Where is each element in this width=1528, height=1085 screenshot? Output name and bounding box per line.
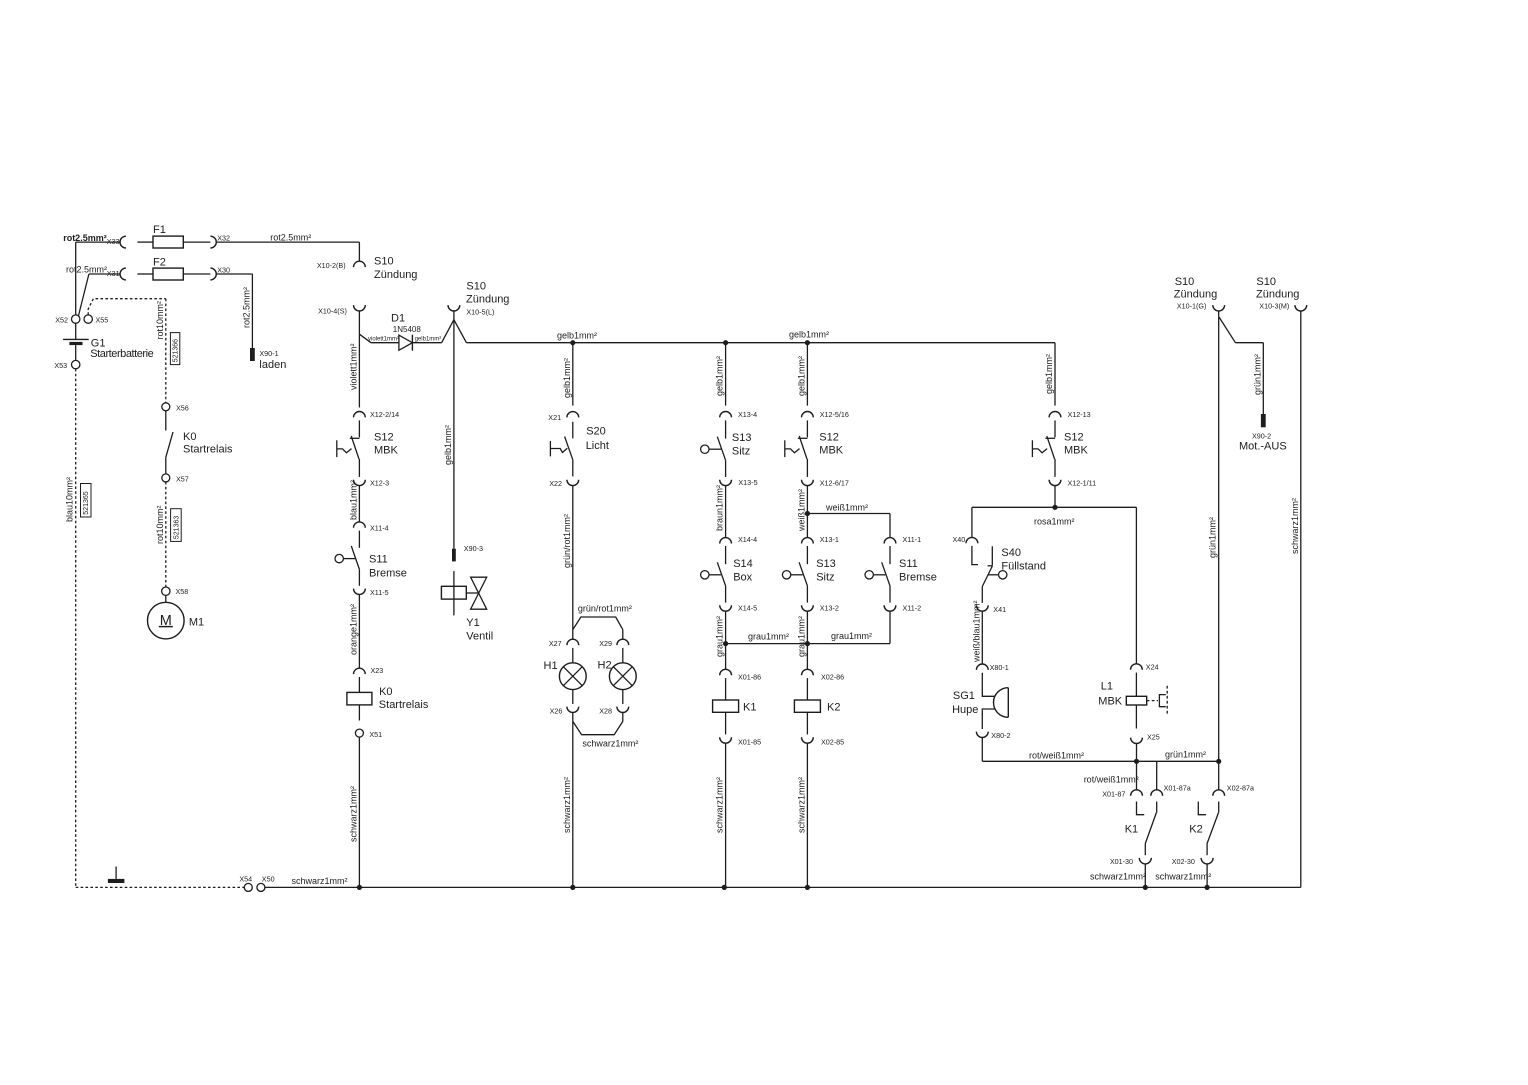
svg-text:Box: Box: [733, 572, 752, 584]
svg-text:Sitz: Sitz: [732, 446, 750, 458]
svg-text:rot2.5mm²: rot2.5mm²: [270, 233, 311, 243]
svg-text:schwarz1mm²: schwarz1mm²: [715, 777, 725, 833]
svg-text:violett1mm²: violett1mm²: [368, 337, 399, 343]
svg-text:Mot.-AUS: Mot.-AUS: [1239, 441, 1287, 453]
svg-text:X53: X53: [54, 361, 67, 370]
svg-text:X32: X32: [217, 234, 230, 243]
svg-text:M: M: [160, 613, 172, 629]
svg-text:D1: D1: [391, 313, 405, 325]
svg-text:Hupe: Hupe: [952, 704, 978, 716]
svg-text:521363: 521363: [173, 516, 180, 539]
svg-text:gelb1mm²: gelb1mm²: [789, 330, 829, 340]
svg-text:blau1mm²: blau1mm²: [348, 480, 358, 520]
svg-text:Zündung: Zündung: [1256, 289, 1299, 301]
svg-text:schwarz1mm²: schwarz1mm²: [796, 777, 806, 833]
svg-text:X10-1(G): X10-1(G): [1177, 302, 1207, 311]
svg-text:S13: S13: [816, 558, 836, 570]
svg-text:Ventil: Ventil: [466, 630, 493, 642]
svg-text:X12-5/16: X12-5/16: [820, 410, 849, 419]
svg-text:X29: X29: [599, 639, 612, 648]
svg-text:L1: L1: [1101, 680, 1113, 692]
svg-text:X01-86: X01-86: [738, 672, 761, 681]
svg-text:X12-2/14: X12-2/14: [370, 410, 399, 419]
svg-text:gelb1mm²: gelb1mm²: [443, 425, 453, 465]
svg-text:X28: X28: [599, 706, 612, 715]
svg-text:X54: X54: [239, 875, 252, 884]
svg-text:rot10mm²: rot10mm²: [155, 505, 165, 544]
svg-text:SG1: SG1: [953, 690, 975, 702]
svg-text:X30: X30: [217, 266, 230, 275]
svg-text:braun1mm²: braun1mm²: [715, 485, 725, 531]
svg-text:Zündung: Zündung: [1174, 289, 1217, 301]
svg-text:rot10mm²: rot10mm²: [155, 301, 165, 340]
svg-text:H1: H1: [544, 660, 558, 672]
svg-text:X33: X33: [107, 237, 120, 246]
svg-text:X26: X26: [550, 706, 563, 715]
svg-text:X57: X57: [176, 475, 189, 484]
svg-text:X14-4: X14-4: [738, 535, 757, 544]
svg-text:X58: X58: [176, 587, 189, 596]
svg-text:Bremse: Bremse: [369, 568, 407, 580]
svg-text:X10-3(M): X10-3(M): [1259, 302, 1289, 311]
svg-text:X25: X25: [1147, 732, 1160, 741]
svg-text:K2: K2: [1189, 824, 1202, 836]
svg-text:gelb1mm²: gelb1mm²: [715, 356, 725, 396]
svg-text:X13-2: X13-2: [820, 603, 839, 612]
svg-text:grau1mm²: grau1mm²: [796, 616, 806, 657]
svg-text:X13-4: X13-4: [738, 410, 757, 419]
svg-text:X11-1: X11-1: [903, 535, 922, 544]
svg-text:X01-87: X01-87: [1102, 790, 1125, 799]
svg-text:schwarz1mm²: schwarz1mm²: [562, 777, 572, 833]
svg-text:X21: X21: [548, 413, 561, 422]
svg-text:S10: S10: [1256, 276, 1276, 288]
svg-text:K1: K1: [1125, 824, 1138, 836]
svg-text:M1: M1: [189, 617, 204, 629]
svg-text:gelb1mm²: gelb1mm²: [1044, 354, 1054, 394]
svg-text:X12-6/17: X12-6/17: [820, 478, 849, 487]
svg-text:grün/rot1mm²: grün/rot1mm²: [562, 514, 572, 568]
svg-text:X11-2: X11-2: [903, 603, 922, 612]
svg-text:X02-87a: X02-87a: [1227, 784, 1254, 793]
svg-text:X90-3: X90-3: [464, 544, 483, 553]
svg-text:rot/weiß1mm²: rot/weiß1mm²: [1029, 751, 1084, 761]
svg-text:X01-30: X01-30: [1110, 857, 1133, 866]
svg-text:X01-87a: X01-87a: [1164, 784, 1191, 793]
svg-text:laden: laden: [259, 359, 286, 371]
svg-text:X24: X24: [1146, 663, 1159, 672]
svg-text:MBK: MBK: [819, 445, 844, 457]
svg-text:schwarz1mm²: schwarz1mm²: [1090, 872, 1146, 882]
svg-text:X23: X23: [371, 666, 384, 675]
svg-text:X11-4: X11-4: [370, 524, 389, 533]
svg-text:1N5408: 1N5408: [393, 325, 422, 334]
svg-text:X51: X51: [369, 730, 382, 739]
svg-text:S20: S20: [586, 426, 606, 438]
svg-text:MBK: MBK: [374, 445, 399, 457]
svg-text:X80-1: X80-1: [990, 663, 1009, 672]
svg-text:Zündung: Zündung: [466, 294, 509, 306]
svg-text:MBK: MBK: [1098, 695, 1123, 707]
svg-text:grau1mm²: grau1mm²: [831, 631, 872, 641]
svg-text:X01-85: X01-85: [738, 737, 761, 746]
svg-text:X90-1: X90-1: [259, 349, 278, 358]
svg-text:grün/rot1mm²: grün/rot1mm²: [578, 604, 632, 614]
svg-text:rot/weiß1mm²: rot/weiß1mm²: [1084, 775, 1139, 785]
svg-text:gelb1mm²: gelb1mm²: [562, 358, 572, 398]
svg-text:S10: S10: [466, 281, 486, 293]
svg-text:X41: X41: [993, 605, 1006, 614]
svg-text:X27: X27: [549, 639, 562, 648]
svg-text:schwarz1mm²: schwarz1mm²: [1290, 498, 1300, 554]
svg-text:grün1mm²: grün1mm²: [1208, 517, 1218, 558]
svg-text:K0: K0: [183, 431, 196, 443]
svg-text:X10-4(S): X10-4(S): [318, 307, 347, 316]
svg-text:rot2.5mm²: rot2.5mm²: [63, 233, 107, 243]
svg-text:grau1mm²: grau1mm²: [748, 632, 789, 642]
svg-text:schwarz1mm²: schwarz1mm²: [582, 739, 638, 749]
svg-text:S14: S14: [733, 558, 753, 570]
svg-text:X40: X40: [953, 535, 966, 544]
svg-text:Bremse: Bremse: [899, 572, 937, 584]
svg-text:violett1mm²: violett1mm²: [348, 343, 358, 390]
svg-text:X90-2: X90-2: [1252, 431, 1271, 440]
svg-text:X80-2: X80-2: [991, 731, 1010, 740]
svg-text:X02-30: X02-30: [1172, 857, 1195, 866]
svg-text:X10-5(L): X10-5(L): [466, 308, 494, 317]
svg-text:S11: S11: [369, 554, 388, 566]
svg-text:weiß/blau1mm²: weiß/blau1mm²: [971, 600, 981, 663]
svg-text:X02-85: X02-85: [821, 737, 844, 746]
svg-text:X10-2(B): X10-2(B): [317, 261, 346, 270]
svg-text:X22: X22: [549, 479, 562, 488]
svg-text:S10: S10: [374, 256, 394, 268]
svg-text:X12-1/11: X12-1/11: [1068, 478, 1097, 487]
svg-text:X52: X52: [55, 315, 68, 324]
svg-text:MBK: MBK: [1064, 445, 1089, 457]
svg-text:X55: X55: [96, 315, 109, 324]
svg-text:grün1mm²: grün1mm²: [1165, 750, 1206, 760]
svg-text:Licht: Licht: [586, 440, 609, 452]
svg-text:S10: S10: [1175, 276, 1195, 288]
svg-text:rot2.5mm²: rot2.5mm²: [66, 265, 107, 275]
svg-text:weiß1mm²: weiß1mm²: [796, 489, 806, 532]
svg-text:K0: K0: [379, 686, 392, 698]
svg-text:Sitz: Sitz: [816, 572, 834, 584]
svg-text:H2: H2: [598, 660, 612, 672]
svg-text:X13-5: X13-5: [738, 478, 757, 487]
svg-text:grau1mm²: grau1mm²: [715, 616, 725, 657]
svg-text:S12: S12: [374, 432, 394, 444]
svg-text:Startrelais: Startrelais: [183, 444, 233, 456]
svg-text:521366: 521366: [173, 339, 180, 362]
svg-text:Füllstand: Füllstand: [1001, 561, 1046, 573]
svg-text:rosa1mm²: rosa1mm²: [1034, 517, 1075, 527]
svg-text:gelb1mm²: gelb1mm²: [557, 331, 597, 341]
svg-text:Starterbatterie: Starterbatterie: [90, 348, 153, 360]
svg-text:gelb1mm²: gelb1mm²: [796, 356, 806, 396]
svg-text:grün1mm²: grün1mm²: [1252, 354, 1262, 395]
svg-text:orange1mm²: orange1mm²: [348, 604, 358, 655]
svg-text:S13: S13: [732, 432, 752, 444]
svg-text:S11: S11: [899, 558, 918, 570]
svg-text:schwarz1mm²: schwarz1mm²: [348, 786, 358, 842]
svg-text:X50: X50: [262, 875, 275, 884]
svg-text:X56: X56: [176, 404, 189, 413]
svg-text:X12-13: X12-13: [1068, 410, 1091, 419]
svg-text:521365: 521365: [83, 491, 90, 514]
svg-text:F2: F2: [153, 256, 166, 268]
svg-text:S12: S12: [1064, 432, 1084, 444]
svg-text:X31: X31: [107, 269, 120, 278]
svg-text:weiß1mm²: weiß1mm²: [825, 503, 868, 513]
svg-text:schwarz1mm²: schwarz1mm²: [1155, 872, 1211, 882]
svg-text:rot2.5mm²: rot2.5mm²: [241, 287, 251, 328]
svg-text:X11-5: X11-5: [370, 588, 389, 597]
svg-text:gelb1mm²: gelb1mm²: [415, 337, 442, 343]
svg-text:X02-86: X02-86: [821, 672, 844, 681]
svg-text:schwarz1mm²: schwarz1mm²: [292, 876, 348, 886]
svg-text:blau10mm²: blau10mm²: [65, 477, 75, 522]
svg-text:Y1: Y1: [466, 617, 479, 629]
svg-text:F1: F1: [153, 224, 166, 236]
svg-text:K1: K1: [743, 702, 756, 714]
svg-text:Startrelais: Startrelais: [379, 699, 429, 711]
svg-text:Zündung: Zündung: [374, 269, 417, 281]
svg-text:X14-5: X14-5: [738, 603, 757, 612]
svg-text:X12-3: X12-3: [370, 478, 389, 487]
svg-text:S12: S12: [819, 432, 839, 444]
svg-text:S40: S40: [1001, 547, 1021, 559]
svg-text:X13-1: X13-1: [820, 535, 839, 544]
svg-text:K2: K2: [827, 702, 840, 714]
